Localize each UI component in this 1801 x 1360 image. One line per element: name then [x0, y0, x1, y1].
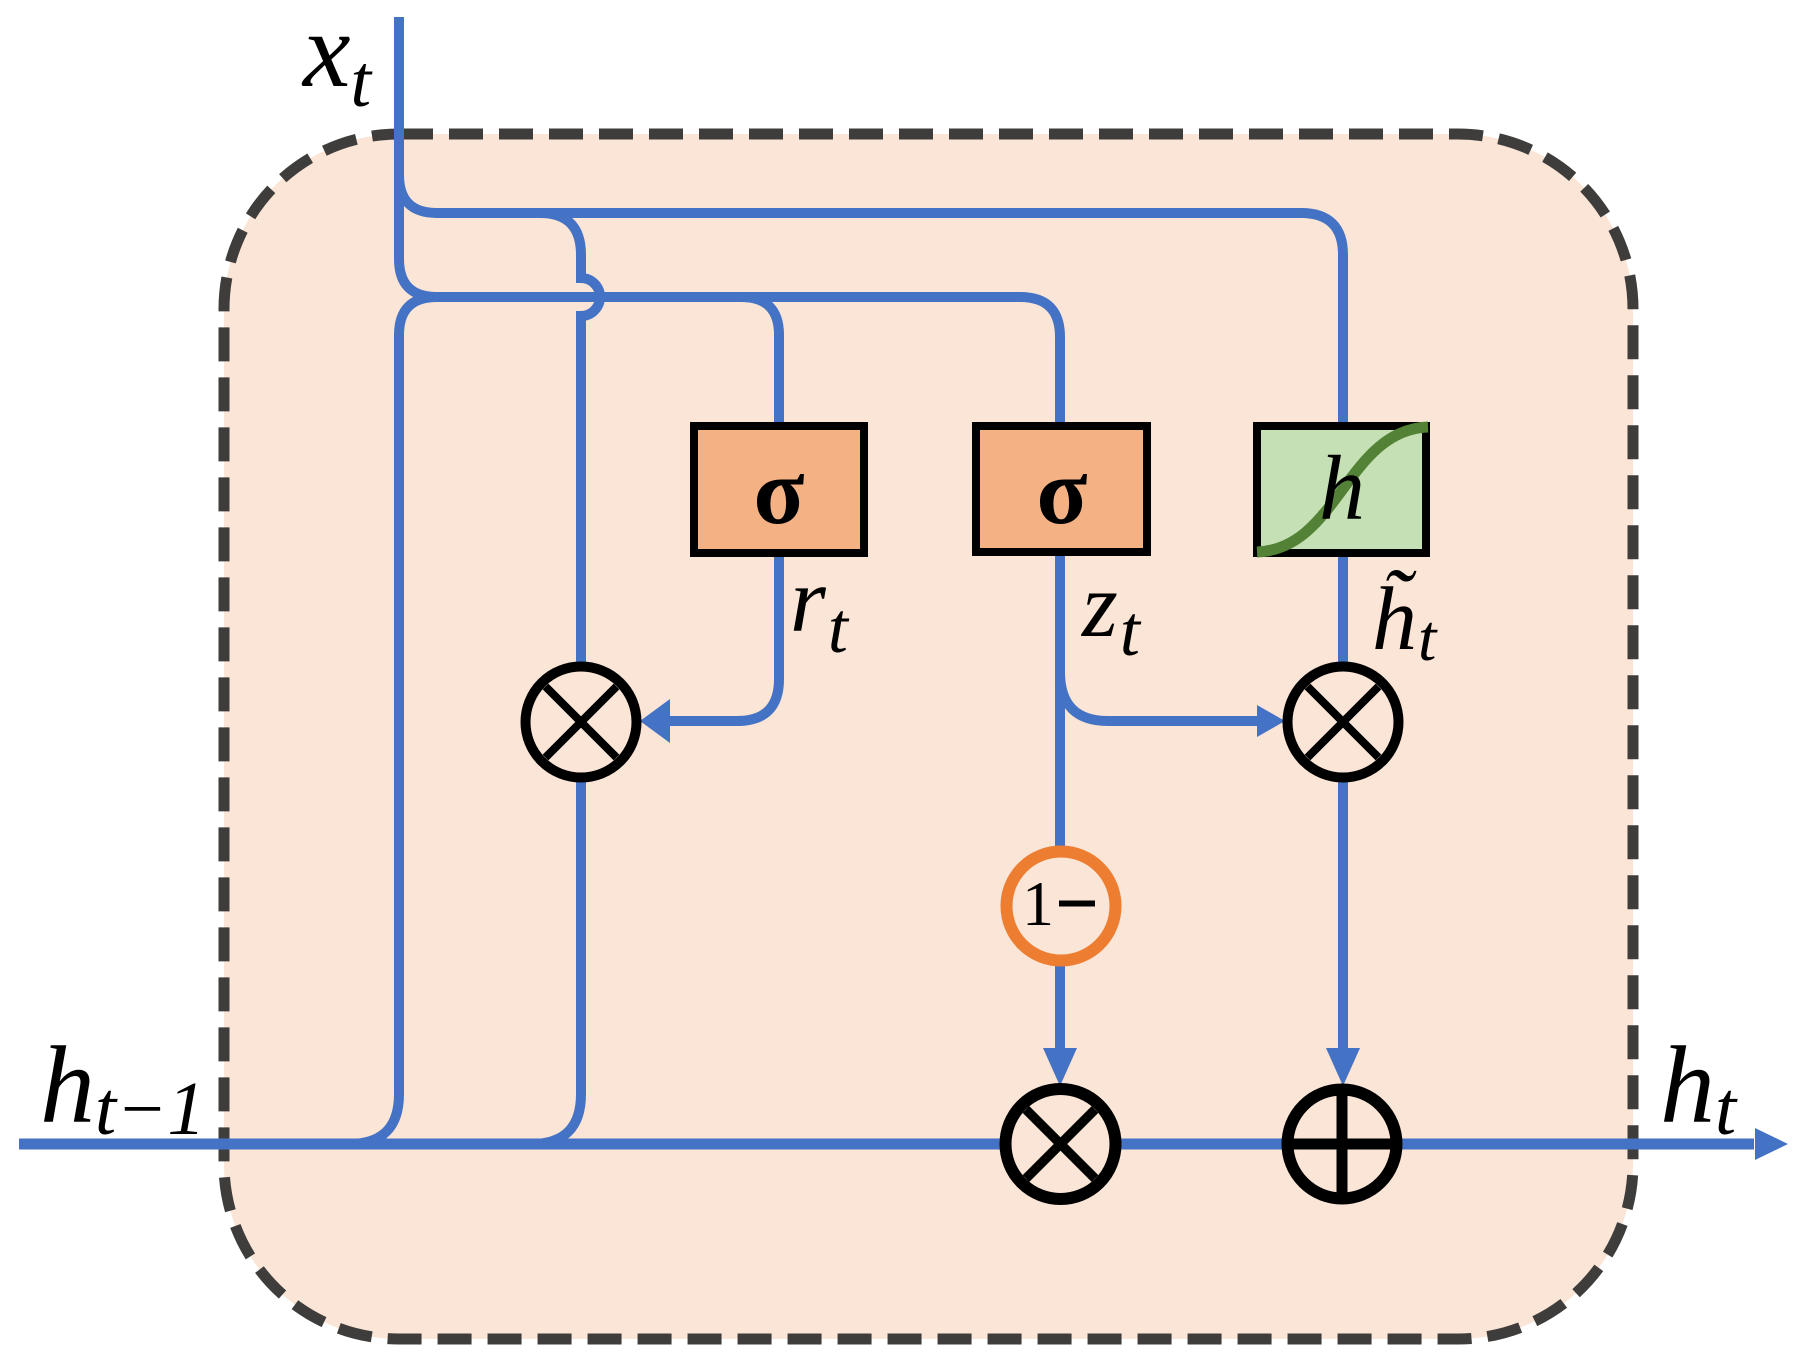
arrowhead of z_t into right multiply [1257, 705, 1285, 737]
sigma box (update gate) [976, 426, 1147, 552]
wire: z_t branch right into h-tilde multiply [1060, 672, 1258, 721]
tanh box [1257, 426, 1426, 553]
svg-text:ht−1: ht−1 [40, 1024, 205, 1151]
svg-text:1: 1 [1022, 868, 1054, 939]
arrowhead into plus [1326, 1048, 1360, 1086]
svg-text:σ: σ [1036, 440, 1087, 544]
wire: x_t input down, turning into line B feeding sigma gates [399, 17, 1060, 422]
sigma box (reset gate) [694, 426, 864, 553]
svg-text:h: h [1319, 437, 1365, 539]
bottom multiply operator ((1-z) * h) [1006, 1089, 1116, 1199]
GRU cell body (dashed rounded rectangle) [224, 134, 1633, 1339]
svg-text:xt: xt [301, 0, 374, 123]
wire: r*h product up from multiply through hop over line B into line A [531, 213, 600, 1144]
wire: x_t branch into line A feeding tanh box [399, 175, 1343, 422]
one-minus circle [1007, 852, 1116, 961]
wire: h_{t-1} input line across bottom [19, 1139, 1754, 1150]
wire: 1-minus output down to bottom multiply [1055, 965, 1065, 1050]
svg-text:σ: σ [753, 440, 804, 544]
plus operator (final sum) [1288, 1090, 1397, 1199]
right multiply operator (z * h-tilde) [1288, 667, 1399, 778]
wire: right multiply output down to plus [1338, 782, 1348, 1050]
svg-text:ht: ht [1660, 1024, 1738, 1151]
wire: branch of line B down into sigma r gate [741, 297, 779, 422]
wire: h-tilde from tanh box down into right multiply [1338, 557, 1348, 662]
wire: h_{t-1} up-branch at x=399 into concat line B [349, 297, 437, 1144]
arrowhead of r_t into left multiply [640, 699, 670, 743]
arrowhead of h_t output at far right [1755, 1128, 1788, 1160]
wire: r_t output of sigma down and left into multiply [668, 557, 779, 721]
arrowhead into bottom multiply [1043, 1048, 1077, 1086]
tanh sigmoid curve [1257, 427, 1428, 552]
wire: z_t output of sigma down to 1-minus circle [1055, 556, 1065, 848]
left multiply operator (r * h) [526, 667, 637, 778]
